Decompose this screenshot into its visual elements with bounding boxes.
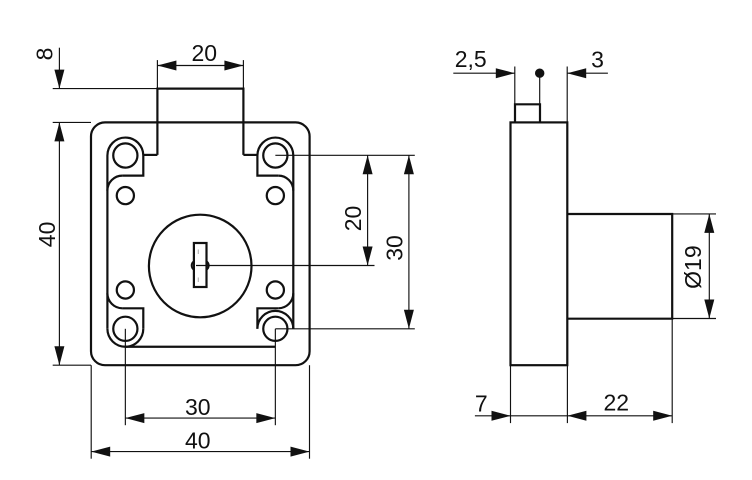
svg-text:7: 7 bbox=[475, 391, 488, 417]
svg-text:20: 20 bbox=[340, 206, 366, 232]
svg-text:30: 30 bbox=[185, 394, 211, 420]
svg-text:Ø19: Ø19 bbox=[680, 245, 706, 288]
svg-text:40: 40 bbox=[185, 427, 211, 453]
svg-text:2,5: 2,5 bbox=[455, 46, 487, 72]
svg-text:8: 8 bbox=[32, 48, 58, 61]
svg-text:40: 40 bbox=[34, 222, 60, 248]
svg-text:3: 3 bbox=[591, 47, 604, 73]
svg-text:20: 20 bbox=[192, 40, 218, 66]
svg-text:30: 30 bbox=[382, 235, 408, 261]
svg-text:22: 22 bbox=[604, 389, 630, 415]
